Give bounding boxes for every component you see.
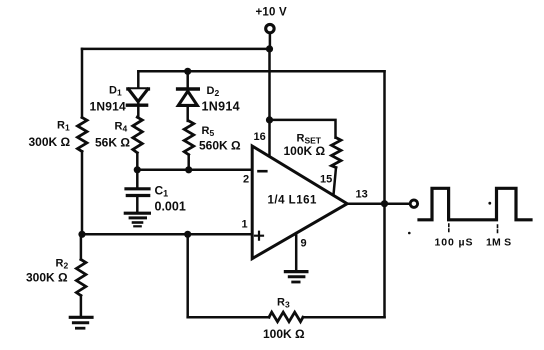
- svg-text:D2: D2: [207, 85, 220, 98]
- svg-text:100 µS: 100 µS: [435, 236, 474, 248]
- diode D2: [178, 87, 199, 91]
- wire R3 bottom right: [303, 316, 385, 319]
- wire R4 to node A: [136, 153, 139, 170]
- svg-text:300K Ω: 300K Ω: [26, 271, 68, 285]
- wire pin 1 net: [82, 233, 252, 236]
- op-amp U1 1/4 L161: [252, 146, 347, 259]
- svg-text:1N914: 1N914: [202, 100, 240, 114]
- waveform output pulses: [419, 188, 531, 220]
- wire D2 to R5: [186, 105, 189, 121]
- wire supply stub: [269, 33, 272, 49]
- svg-text:1N914: 1N914: [90, 100, 126, 114]
- wire R2 bottom: [80, 296, 83, 316]
- wire left rail lower: [81, 151, 84, 234]
- resistor R2: [76, 260, 86, 296]
- svg-text:R1: R1: [57, 120, 70, 133]
- resistor RSET: [332, 138, 342, 168]
- svg-text:300K Ω: 300K Ω: [29, 135, 71, 149]
- label plus input: [255, 232, 263, 240]
- speck near output: [408, 232, 411, 235]
- resistor R3: [269, 312, 303, 322]
- resistor R1: [78, 118, 88, 152]
- svg-text:1M S: 1M S: [486, 236, 511, 248]
- speck between pulses: [488, 202, 491, 205]
- ground (pin 9): [285, 270, 307, 273]
- wire supply vertical to pin 16: [268, 49, 271, 157]
- wire node A to pin 2: [137, 169, 252, 172]
- waveform tick 2: [497, 225, 499, 235]
- junction pin1 / R3 branch: [184, 231, 191, 238]
- junction supply/top-rail: [266, 45, 273, 52]
- resistor R4: [133, 117, 143, 153]
- wire top rail: [82, 48, 270, 51]
- svg-text:C1: C1: [155, 184, 169, 199]
- wire R3 bottom left: [188, 316, 269, 319]
- svg-text:2: 2: [243, 174, 249, 186]
- svg-text:56K Ω: 56K Ω: [95, 136, 130, 150]
- svg-text:13: 13: [356, 189, 368, 201]
- wire pin 9: [295, 233, 298, 270]
- junction left rail / pin1: [78, 231, 85, 238]
- svg-text:R2: R2: [56, 258, 69, 271]
- ground (R2): [70, 316, 92, 319]
- wire R2 top: [80, 234, 83, 259]
- junction R4/C1: [134, 166, 141, 173]
- node +10V terminal: [266, 24, 274, 32]
- svg-text:R3: R3: [277, 297, 290, 310]
- svg-text:R5: R5: [202, 125, 215, 138]
- wire right feedback vertical: [383, 71, 386, 317]
- svg-text:1/4 L161: 1/4 L161: [268, 194, 317, 206]
- wire D1 to R4: [137, 102, 140, 118]
- junction R5: [185, 166, 192, 173]
- wire RSET top: [270, 120, 336, 138]
- junction D2 top: [184, 68, 191, 75]
- wire C1 bottom stub: [136, 196, 139, 213]
- wire D1 anode stub: [137, 71, 140, 89]
- wire R5 to node A: [187, 155, 190, 170]
- wire R3 branch vertical: [186, 234, 189, 317]
- svg-text:0.001: 0.001: [155, 200, 186, 214]
- svg-text:D1: D1: [109, 85, 122, 98]
- svg-text:15: 15: [320, 174, 332, 186]
- svg-text:9: 9: [301, 238, 307, 250]
- waveform tick 1: [448, 224, 450, 234]
- wire C1 top stub: [136, 170, 139, 188]
- wire output pin 13: [347, 202, 410, 205]
- diode D1: [128, 87, 148, 90]
- svg-text:R4: R4: [115, 121, 128, 134]
- svg-text:100K Ω: 100K Ω: [284, 144, 326, 158]
- wire D1-D2 top net: [138, 70, 384, 73]
- wire D2 cathode stub: [186, 71, 189, 89]
- svg-text:+10 V: +10 V: [256, 7, 288, 19]
- resistor R5: [184, 121, 194, 155]
- node output terminal: [410, 200, 417, 207]
- label minus input: [259, 170, 267, 173]
- svg-text:100K Ω: 100K Ω: [263, 327, 305, 341]
- wire RSET to pin 15: [334, 168, 337, 195]
- capacitor C1: [126, 187, 149, 190]
- junction output/feedback: [381, 200, 388, 207]
- svg-text:560K Ω: 560K Ω: [199, 139, 241, 153]
- ground (C1): [125, 212, 149, 215]
- junction pin16/RSET: [266, 116, 273, 123]
- svg-text:16: 16: [254, 131, 266, 143]
- wire left rail upper: [81, 49, 84, 118]
- svg-text:1: 1: [242, 219, 248, 231]
